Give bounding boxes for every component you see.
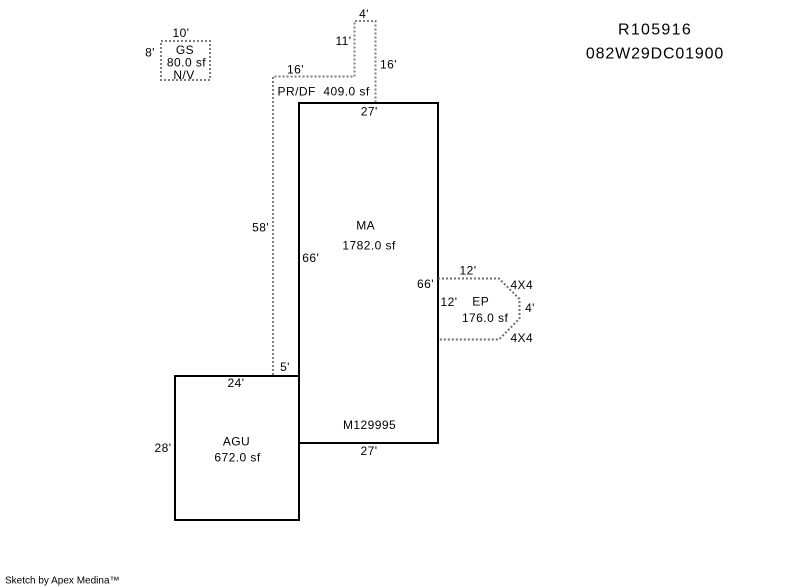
garden shed GS dashed outline — [161, 41, 210, 80]
svg-text:58': 58' — [252, 221, 269, 235]
main area MA outline — [299, 103, 438, 443]
svg-text:4': 4' — [525, 301, 535, 315]
svg-text:EP: EP — [472, 294, 489, 308]
svg-text:672.0 sf: 672.0 sf — [214, 451, 261, 465]
svg-text:66': 66' — [302, 251, 319, 265]
svg-text:12': 12' — [441, 295, 458, 309]
svg-text:4X4: 4X4 — [510, 278, 533, 292]
garage/utility AGU outline — [175, 376, 299, 520]
svg-text:28': 28' — [155, 441, 172, 455]
svg-text:66': 66' — [417, 277, 434, 291]
svg-text:082W29DC01900: 082W29DC01900 — [586, 46, 724, 63]
svg-text:11': 11' — [335, 34, 351, 48]
svg-text:PR/DF 409.0 sf: PR/DF 409.0 sf — [278, 85, 370, 99]
svg-text:M129995: M129995 — [343, 418, 396, 432]
svg-text:27': 27' — [361, 444, 378, 458]
svg-text:N/V: N/V — [173, 68, 194, 82]
svg-text:4': 4' — [359, 7, 369, 21]
svg-text:AGU: AGU — [223, 435, 250, 449]
svg-text:176.0 sf: 176.0 sf — [462, 311, 509, 325]
svg-text:10': 10' — [173, 26, 190, 40]
svg-text:1782.0 sf: 1782.0 sf — [342, 238, 396, 252]
svg-text:27': 27' — [361, 105, 378, 119]
enclosed porch EP dashed boundary — [438, 279, 520, 340]
svg-text:Sketch by Apex Medina™: Sketch by Apex Medina™ — [5, 576, 120, 587]
svg-text:MA: MA — [356, 218, 375, 232]
svg-text:24': 24' — [228, 376, 245, 390]
svg-text:8': 8' — [145, 46, 155, 60]
porch/deck PR/DF dashed boundary — [273, 21, 376, 375]
svg-text:R105916: R105916 — [618, 22, 692, 39]
svg-text:5': 5' — [280, 360, 290, 374]
svg-text:12': 12' — [460, 264, 477, 278]
svg-text:4X4: 4X4 — [510, 331, 533, 345]
svg-text:16': 16' — [380, 58, 397, 72]
svg-text:16': 16' — [287, 62, 304, 76]
